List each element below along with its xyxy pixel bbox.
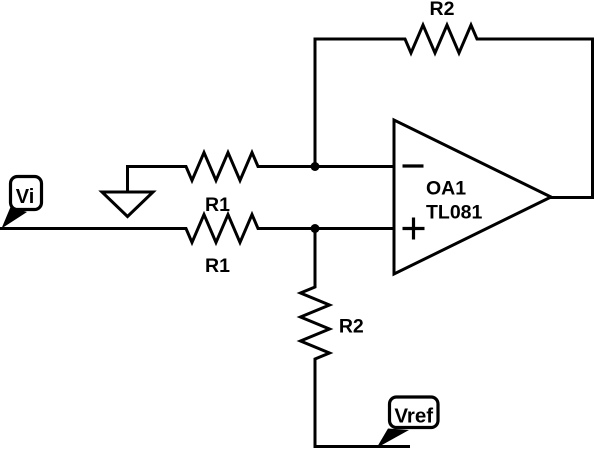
svg-text:R1: R1 (205, 255, 230, 277)
svg-text:Vi: Vi (16, 186, 35, 208)
svg-text:R1: R1 (205, 194, 230, 216)
svg-text:Vref: Vref (394, 404, 433, 427)
svg-text:TL081: TL081 (426, 202, 483, 224)
svg-text:R2: R2 (430, 0, 455, 20)
svg-text:OA1: OA1 (426, 178, 466, 200)
svg-text:R2: R2 (339, 316, 364, 338)
